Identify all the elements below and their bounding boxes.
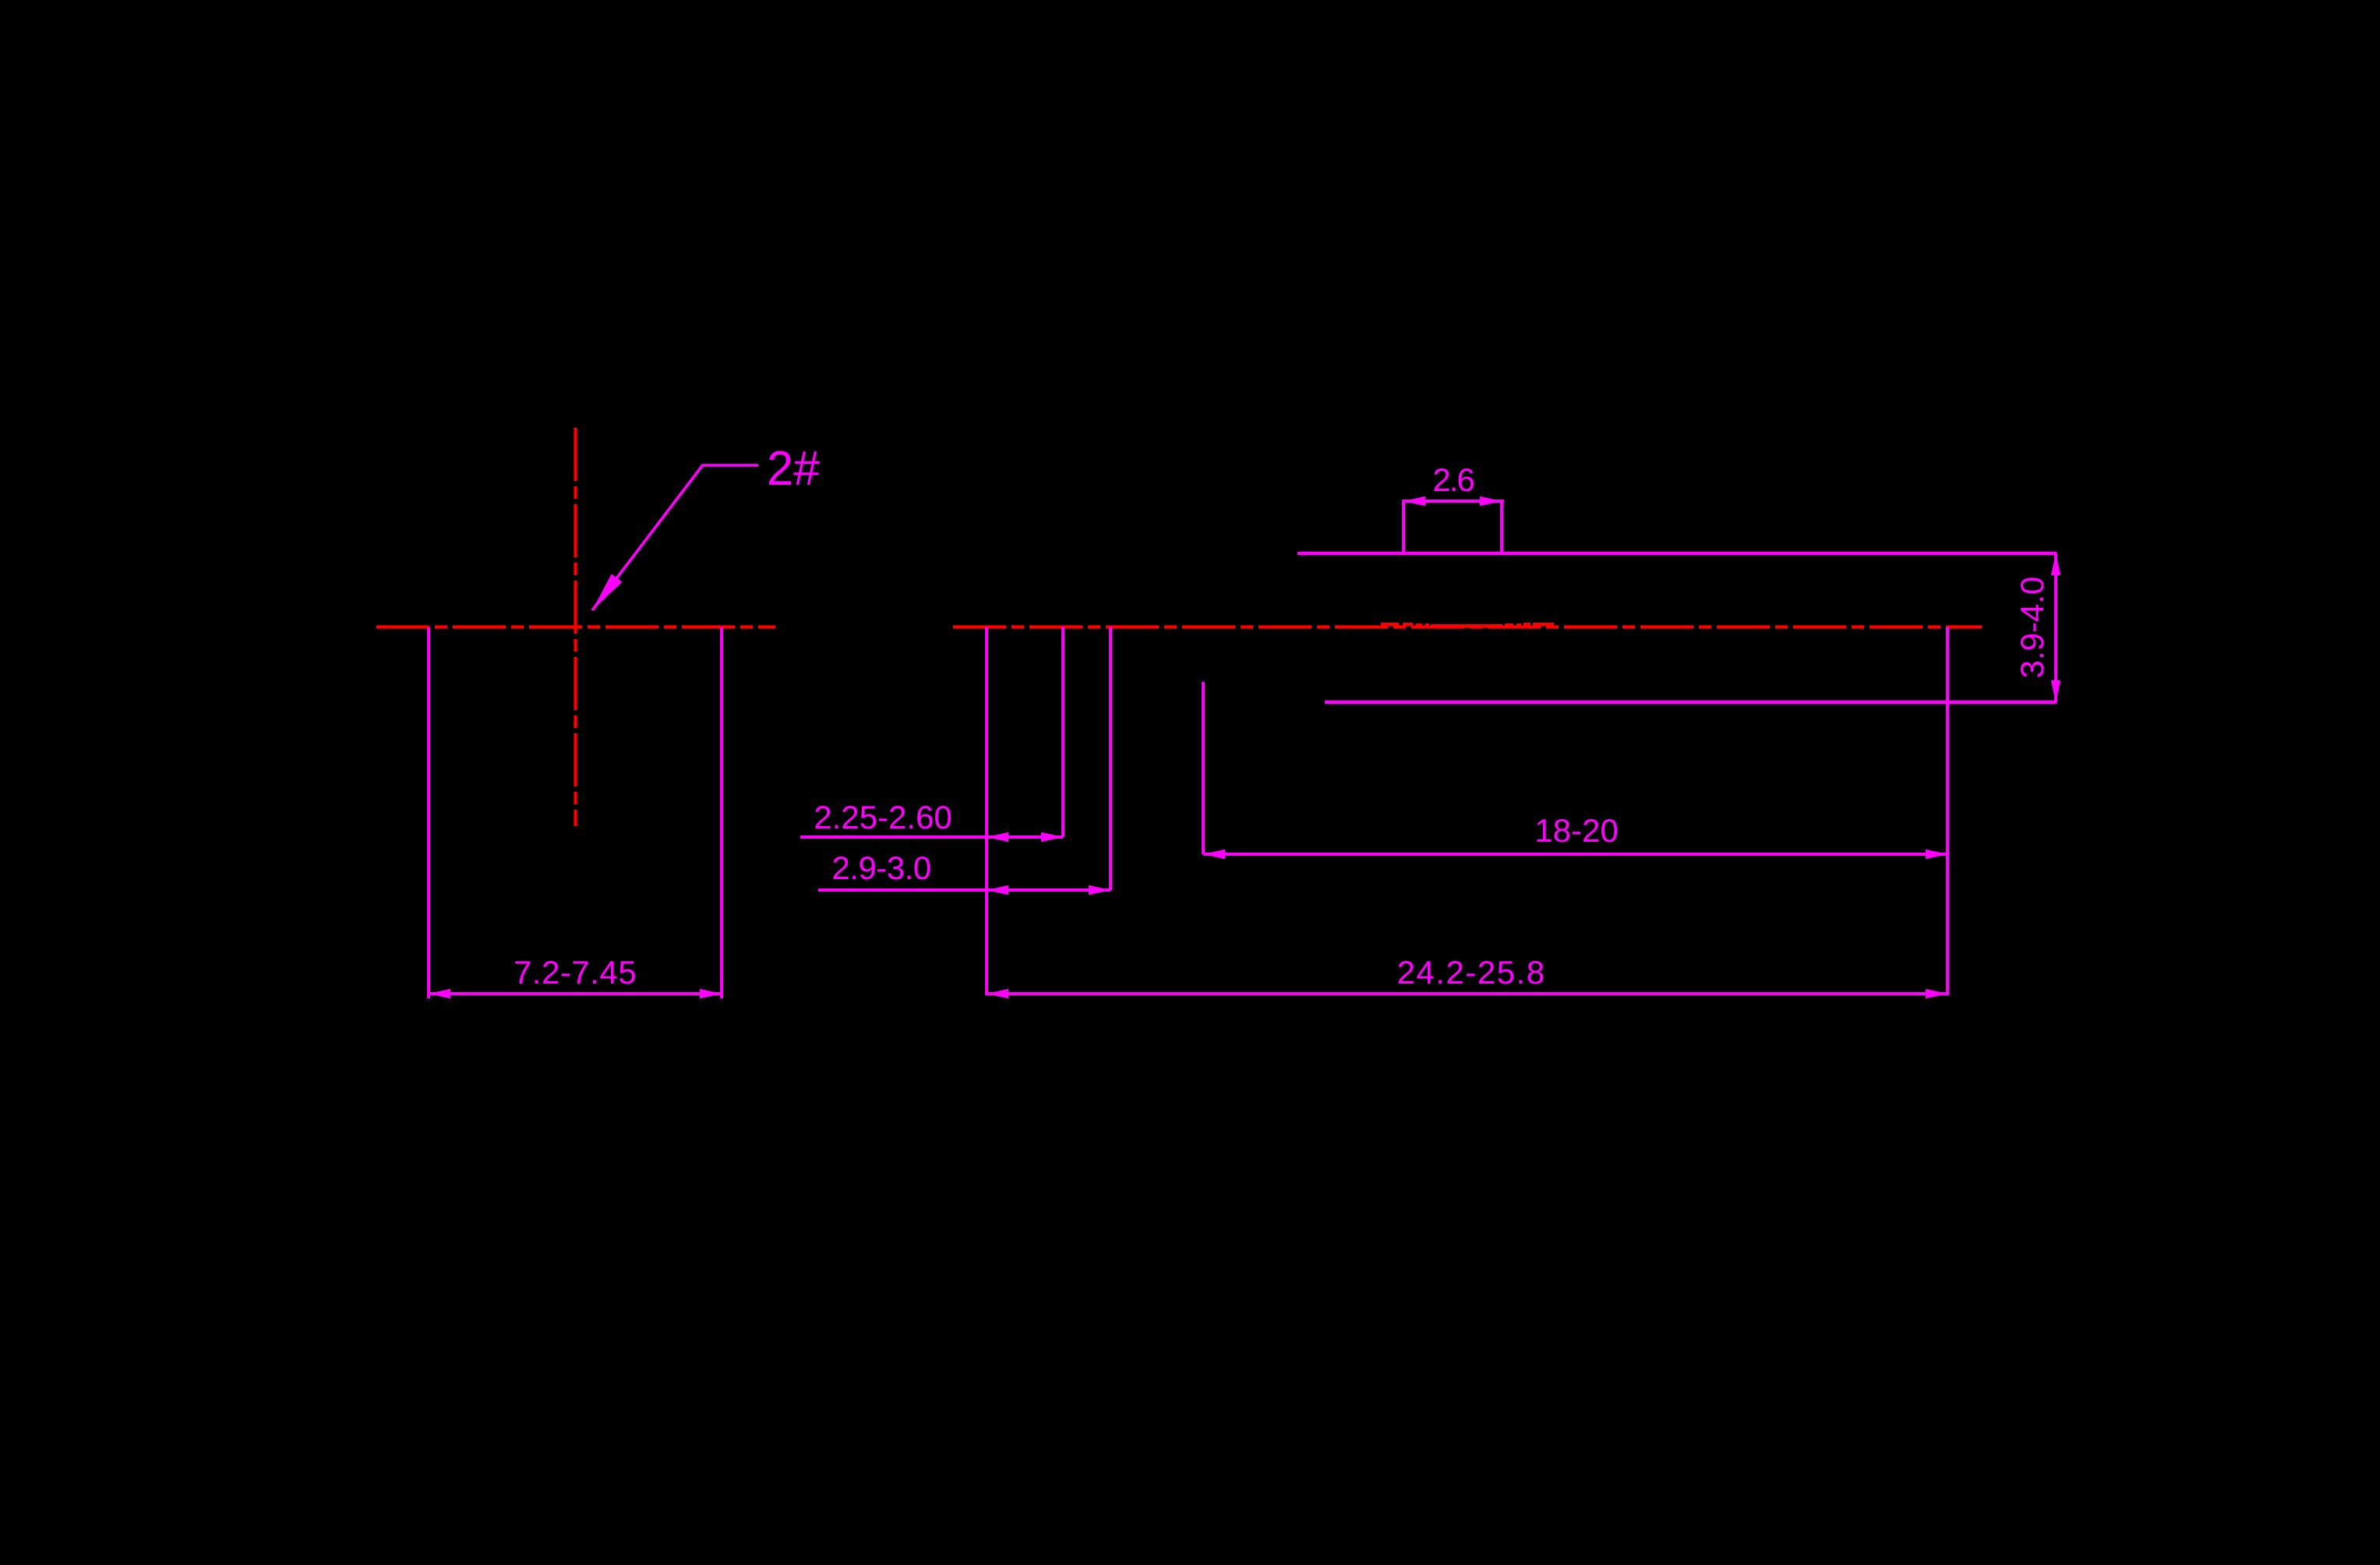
- extension line left (7.2-7.45): [427, 627, 430, 998]
- svg-text:24.2-25.8: 24.2-25.8: [1397, 954, 1546, 991]
- svg-text:2.25-2.60: 2.25-2.60: [814, 799, 952, 835]
- svg-text:2.6: 2.6: [1432, 461, 1474, 498]
- extension line left (2.6): [1402, 501, 1405, 553]
- centerline vertical (left view): [574, 428, 577, 826]
- svg-text:3.9-4.0: 3.9-4.0: [2014, 577, 2050, 679]
- extension line 2 (x=1364): [1061, 627, 1065, 838]
- svg-text:18-20: 18-20: [1534, 812, 1618, 849]
- svg-text:2.9-3.0: 2.9-3.0: [832, 850, 930, 886]
- extension line 18-20 left (x=1544): [1202, 682, 1205, 854]
- svg-text:2#: 2#: [767, 442, 821, 496]
- extension line right (7.2-7.45): [720, 627, 723, 998]
- dimension 3.9-4.0 (vertical): [2014, 553, 2060, 702]
- leader 2#: [592, 465, 758, 610]
- extension line 1 (x=1266): [985, 627, 988, 996]
- extension line 3 (x=1425): [1109, 627, 1112, 891]
- dimension 18-20: [1203, 812, 1947, 859]
- dimension 7.2-7.45: [429, 954, 722, 998]
- svg-text:7.2-7.45: 7.2-7.45: [514, 954, 637, 991]
- part top edge (right view): [1298, 552, 2057, 556]
- extension line right (2.6): [1500, 501, 1503, 553]
- dimension 2.9-3.0: [818, 850, 1111, 895]
- part bottom edge (right view): [1325, 701, 2057, 705]
- extension line right common (x=2499): [1946, 627, 1949, 996]
- centerline overlap dashes (right view): [1381, 623, 1554, 628]
- dimension 2.6: [1402, 461, 1504, 506]
- centerline horizontal (right view): [953, 625, 1982, 628]
- dimension 2.25-2.60: [800, 799, 1063, 842]
- dimension 24.2-25.8: [987, 954, 1947, 998]
- centerline horizontal (left view): [376, 625, 775, 628]
- label 2#: [767, 442, 821, 496]
